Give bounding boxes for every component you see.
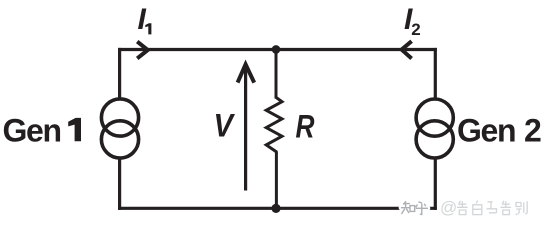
svg-text:2: 2 bbox=[411, 20, 420, 39]
watermark white backing over wire bbox=[400, 205, 428, 212]
svg-text:V: V bbox=[214, 107, 236, 143]
node junction dot bottom bbox=[271, 204, 280, 213]
watermark zhihu logo text 知 (white halo) bbox=[401, 201, 428, 214]
node junction dot top bbox=[272, 45, 281, 54]
wire middle vertical lower bbox=[275, 152, 278, 208]
wire right vertical lower bbox=[434, 160, 437, 210]
wire middle vertical upper bbox=[275, 50, 278, 99]
watermark zhihu logo text 知乎 bbox=[401, 201, 428, 214]
voltage arrow V head bbox=[238, 64, 255, 82]
watermark 别 bbox=[516, 201, 528, 214]
svg-text:Gen: Gen bbox=[3, 112, 63, 148]
voltage arrow V shaft bbox=[244, 65, 247, 191]
watermark 与 bbox=[487, 202, 497, 213]
svg-text:Gen: Gen bbox=[457, 112, 517, 148]
watermark 白 bbox=[473, 201, 482, 215]
wire bottom horizontal bbox=[118, 207, 437, 210]
wire left vertical lower bbox=[118, 160, 121, 210]
svg-text:2: 2 bbox=[524, 112, 542, 148]
svg-text:R: R bbox=[296, 109, 315, 145]
svg-text:I: I bbox=[138, 3, 147, 36]
current source Gen 2 symbol bbox=[416, 99, 453, 158]
resistor R zigzag bbox=[266, 97, 282, 152]
current source Gen 1 symbol bbox=[101, 99, 138, 158]
arrow I1 current direction bbox=[137, 42, 148, 59]
arrow I2 current direction bbox=[402, 41, 412, 58]
svg-text:@: @ bbox=[440, 198, 457, 217]
wire left vertical upper bbox=[118, 48, 121, 98]
wire right vertical upper bbox=[434, 48, 437, 99]
wire top horizontal bbox=[118, 48, 437, 51]
watermark 告 bbox=[457, 201, 468, 215]
watermark 告 second bbox=[501, 201, 512, 215]
